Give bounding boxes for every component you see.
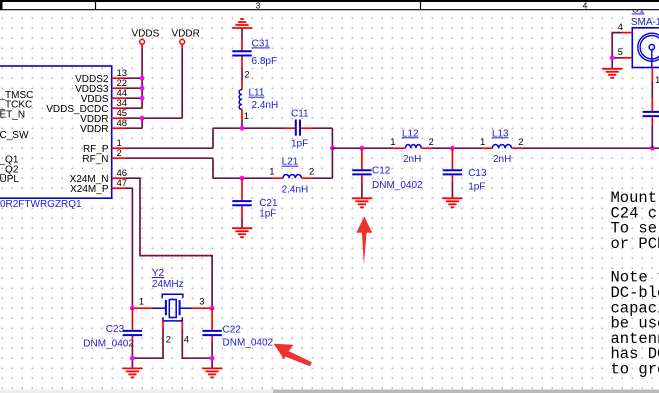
svg-text:to ground.: to ground.	[611, 361, 659, 379]
wire C21 to ground	[241, 219, 243, 228]
capacitor C22 DNM_0402	[202, 308, 273, 348]
svg-text:VDDS: VDDS	[132, 29, 160, 40]
connector U1 refdes label (clipped by frame)	[632, 4, 645, 15]
svg-text:UPL: UPL	[0, 174, 19, 185]
wire VDDS vertical bus	[141, 48, 143, 108]
wire RF_P to balun	[126, 147, 214, 149]
wire RF line segment 3	[522, 147, 659, 149]
svg-text:48: 48	[117, 118, 128, 129]
wire VDDS to pin 22	[126, 87, 143, 89]
crystal pin 4	[181, 321, 183, 330]
junction VDDR branch	[140, 116, 145, 121]
svg-text:1: 1	[244, 111, 249, 122]
svg-text:DNM_0402: DNM_0402	[223, 337, 274, 348]
IC pin 47 X24M_P	[70, 178, 127, 195]
svg-text:3: 3	[256, 1, 261, 11]
wire balun lower rail left	[213, 177, 273, 179]
wire SMA pins 4,5 to ground	[612, 33, 622, 58]
junction C13 tap	[450, 146, 455, 151]
svg-text:Y2: Y2	[152, 268, 165, 279]
junction C21 tap on lower rail	[240, 176, 245, 181]
capacitor C24 (series to antenna)	[643, 98, 659, 125]
SMA pin 5	[622, 57, 632, 59]
svg-text:2: 2	[117, 148, 122, 159]
svg-text:1: 1	[480, 137, 485, 148]
capacitor C21 1pF (shunt)	[232, 178, 278, 219]
svg-text:DNM_0402: DNM_0402	[372, 180, 423, 191]
svg-text:L12: L12	[402, 128, 419, 139]
IC pin 2 RF_N	[82, 148, 125, 165]
power symbol VDDR	[172, 29, 200, 49]
junction SMA ground	[610, 55, 615, 60]
svg-text:2: 2	[244, 69, 249, 80]
power symbol VDDS	[132, 29, 160, 49]
wire C31 to L11	[241, 68, 243, 81]
IC pin 34 VDDS_DCDC	[46, 98, 127, 115]
svg-text:L11: L11	[249, 88, 265, 99]
wire lower rail right	[312, 177, 332, 179]
svg-text:C12: C12	[372, 165, 391, 176]
svg-text:2: 2	[429, 137, 434, 148]
svg-text:1: 1	[269, 167, 274, 178]
wire C12 to ground	[361, 183, 363, 198]
crystal Y2 24MHz	[132, 268, 212, 346]
svg-text:4: 4	[184, 335, 189, 346]
svg-text:DNM_0402: DNM_0402	[83, 339, 134, 350]
IC pin 46 X24M_N	[70, 168, 127, 185]
ground (inverted, above C31)	[232, 19, 252, 28]
svg-text:1pF: 1pF	[291, 138, 308, 149]
note text block 1	[611, 189, 659, 253]
ground below C22	[202, 368, 222, 377]
wire SMA pin1 down	[651, 82, 653, 98]
svg-text:2nH: 2nH	[493, 154, 511, 165]
junction crystal pin3 node	[210, 306, 215, 311]
svg-text:1pF: 1pF	[259, 209, 276, 220]
svg-text:3: 3	[199, 296, 204, 307]
svg-text:C21: C21	[259, 198, 278, 209]
svg-text:or PCB antenna: or PCB antenna	[611, 235, 659, 253]
svg-text:6.8pF: 6.8pF	[252, 56, 278, 67]
svg-text:L13: L13	[492, 128, 509, 139]
svg-text:C31: C31	[252, 38, 271, 49]
connector U1 SMA-1	[618, 17, 659, 86]
IC pin 48 VDDR	[80, 118, 127, 135]
IC pin 13 VDDS2	[75, 68, 127, 85]
svg-text:1: 1	[655, 75, 659, 86]
IC pin 22 VDDS3	[75, 78, 127, 95]
capacitor C23 DNM_0402	[83, 308, 142, 349]
ground below C13	[442, 198, 462, 207]
svg-text:VDDR: VDDR	[172, 29, 200, 40]
svg-text:2: 2	[518, 137, 523, 148]
wire balun upper rail left	[213, 127, 284, 129]
wire C23 bottom node	[131, 343, 133, 358]
wire C22 bottom node	[211, 343, 213, 358]
IC pin 44 VDDS	[81, 88, 127, 105]
IC pin 1 RF_P	[83, 138, 126, 155]
junction C22 ground node	[210, 356, 215, 361]
wire crystal pin 2 to C23 node	[132, 330, 163, 369]
capacitor C11 1pF (series, upper rail)	[284, 109, 313, 150]
SMA pin 4	[622, 32, 632, 34]
wire ground to C31	[241, 28, 243, 38]
wire C13 to ground	[451, 183, 453, 198]
svg-text:47: 47	[117, 178, 128, 189]
svg-text:2.4nH: 2.4nH	[252, 100, 279, 111]
wire VDDS to pin 13	[126, 77, 143, 79]
svg-text:L21: L21	[282, 157, 299, 168]
svg-text:RF_N: RF_N	[82, 154, 108, 165]
wire VDDS to pin 44	[126, 97, 143, 99]
scrollbar (window chrome)	[0, 390, 659, 393]
svg-text:VDDR: VDDR	[80, 124, 108, 135]
ground below SMA	[602, 69, 622, 78]
SMA pin 1	[651, 68, 653, 83]
annotation arrow 2 (points up-left at C22)	[274, 344, 312, 367]
wire RF line segment 2	[431, 147, 482, 149]
IC pin 45 VDDR	[80, 108, 127, 125]
svg-text:24MHz: 24MHz	[152, 279, 184, 290]
wire L11 to upper rail	[241, 120, 243, 129]
capacitor C12 DNM_0402 (shunt)	[352, 148, 423, 191]
svg-text:C13: C13	[468, 168, 487, 179]
note text block 2	[611, 269, 659, 379]
svg-text:2: 2	[166, 335, 171, 346]
wire crystal pin 4 to C22 node	[182, 330, 212, 369]
svg-text:5: 5	[618, 47, 623, 58]
junction C23 ground node	[130, 356, 135, 361]
capacitor C13 1pF (shunt)	[443, 148, 487, 192]
inductor L13 2nH (series)	[480, 128, 524, 165]
junction VDDS pin44	[140, 96, 145, 101]
svg-text:1: 1	[390, 137, 395, 148]
svg-text:2: 2	[309, 167, 314, 178]
wire VDDR vertical bus	[181, 48, 183, 118]
crystal pin 2	[162, 321, 164, 330]
svg-text:C_SW: C_SW	[0, 130, 29, 141]
svg-text:C11: C11	[291, 109, 309, 120]
junction crystal pin1 node	[130, 306, 135, 311]
junction VDDS pin22	[140, 86, 145, 91]
svg-text:C22: C22	[223, 325, 242, 336]
ground below C21	[232, 228, 252, 237]
wire X24M_P to crystal pin 1	[126, 188, 133, 308]
svg-text:4: 4	[583, 1, 588, 11]
svg-text:X24M_P: X24M_P	[70, 184, 109, 195]
wire VDDR horizontal to pin 45	[126, 117, 183, 119]
svg-text:ET_N: ET_N	[0, 109, 25, 120]
wire VDDS to pin 34	[126, 107, 143, 109]
wire X24M_N to crystal pin 3	[126, 178, 213, 308]
wire upper rail right	[312, 127, 332, 129]
capacitor C31 6.8pF	[232, 38, 277, 80]
svg-text:1: 1	[139, 296, 144, 307]
junction balun output	[330, 146, 335, 151]
junction C24/antenna node	[650, 146, 655, 151]
svg-text:C23: C23	[106, 324, 125, 335]
wire VDDR drop to pin 48	[141, 118, 143, 128]
svg-text:2nH: 2nH	[403, 154, 421, 165]
svg-text:1pF: 1pF	[468, 181, 485, 192]
IC U2 CC2640R2F block (partial, clipped at left)	[0, 66, 112, 198]
inductor L11 2.4nH	[239, 81, 278, 122]
wire C24 to RF node	[651, 126, 653, 149]
junction VDDS pin13	[140, 76, 145, 81]
ground below C23	[122, 368, 142, 377]
inductor L12 2nH (series)	[390, 128, 434, 165]
inductor L21 2.4nH (series, lower rail)	[269, 157, 314, 196]
svg-text:4: 4	[618, 22, 623, 33]
svg-text:2.4nH: 2.4nH	[282, 185, 309, 196]
wire RF_N to balun	[126, 157, 214, 159]
ground below C12	[352, 198, 372, 207]
svg-text:SMA-1J: SMA-1J	[631, 17, 659, 28]
junction L11 tap on upper rail	[240, 126, 245, 131]
junction C12 tap	[360, 146, 365, 151]
annotation arrow 1 (points up at C12 ground)	[356, 217, 372, 265]
svg-text:CC2640R2FTWRGZRQ1: CC2640R2FTWRGZRQ1	[0, 199, 82, 210]
wire RF line segment 1	[332, 147, 393, 149]
